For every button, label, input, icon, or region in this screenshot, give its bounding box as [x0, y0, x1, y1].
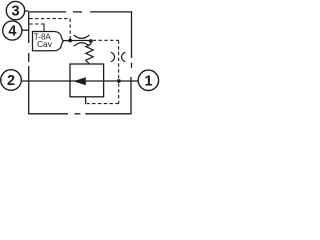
main valve box V1: [70, 64, 104, 97]
orifice O2 (restriction on vertical pilot branch): [111, 52, 126, 61]
port 2 circle: [1, 70, 22, 91]
node A junction dot: [68, 39, 72, 43]
main flow wire port2 to port1: [22, 80, 139, 82]
pilot line node B to top-right corner (dashed): [93, 40, 119, 52]
port 1 circle: [138, 70, 158, 90]
enclosure boundary top (chain line): [29, 11, 133, 13]
spring K1 (pilot spring above main poppet): [86, 42, 93, 64]
port 3 circle: [6, 1, 24, 19]
wire: cavity tip to node A: [63, 40, 68, 42]
svg-text:1: 1: [144, 74, 152, 90]
pilot line node C down and left to valve bottom (dashed): [86, 83, 119, 104]
node C junction dot on port-1 line: [117, 79, 121, 83]
flow arrow inside valve V1 (points to port 2): [73, 77, 85, 85]
T-8A control cavity box: [33, 32, 64, 51]
svg-text:3: 3: [12, 4, 20, 20]
enclosure boundary bottom (chain line): [29, 113, 132, 115]
svg-text:4: 4: [8, 24, 16, 40]
port 3 stub wire: [25, 10, 29, 12]
orifice O1 (restriction on pilot rail): [70, 35, 91, 46]
node B junction dot: [89, 39, 93, 43]
pilot line from port 3 (dashed, horizontal then down to node A): [29, 19, 70, 39]
port 4 circle: [3, 21, 22, 40]
port 4 stub wire: [22, 29, 29, 31]
enclosure boundary left (chain line): [28, 12, 30, 115]
svg-text:Cav: Cav: [37, 39, 53, 49]
pilot line from port 4 (dashed, into T-8A cavity top): [29, 23, 44, 31]
svg-text:2: 2: [7, 73, 15, 89]
enclosure boundary right (chain line): [130, 12, 133, 114]
pilot line orifice O2 down to node C (dashed): [118, 52, 120, 79]
